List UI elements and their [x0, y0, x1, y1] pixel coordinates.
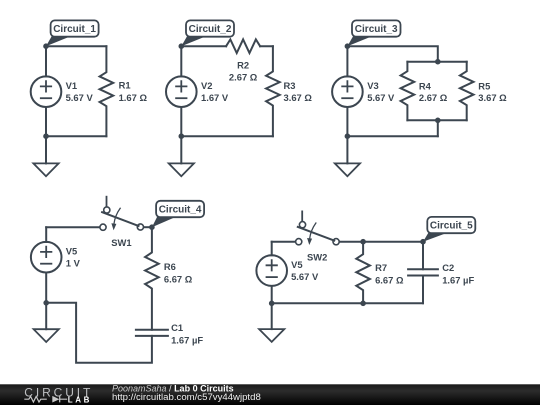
voltage source V2: [166, 76, 197, 107]
node D5a: [360, 239, 366, 245]
svg-text:R5: R5: [478, 80, 490, 91]
svg-text:Circuit_1: Circuit_1: [53, 24, 96, 35]
wire circuit2 bottom: [181, 135, 273, 137]
node B1: [43, 133, 49, 139]
svg-text:Circuit_4: Circuit_4: [159, 205, 202, 216]
label Circuit_1: [46, 20, 99, 46]
resistor R7: [356, 242, 370, 304]
svg-text:Circuit_2: Circuit_2: [189, 24, 232, 35]
node B4: [43, 300, 49, 306]
svg-text:SW1: SW1: [111, 237, 131, 248]
label Circuit_4: [152, 201, 204, 227]
wire circuit5 switch to nodes: [339, 241, 423, 243]
resistor R1: [100, 46, 114, 136]
ground circuit3: [335, 163, 360, 176]
voltage source V3: [332, 76, 363, 107]
svg-text:1.67 Ω: 1.67 Ω: [119, 92, 148, 103]
svg-text:SW2: SW2: [307, 252, 327, 263]
svg-text:Circuit_5: Circuit_5: [430, 221, 473, 232]
node B3: [345, 133, 351, 139]
wire circuit4 top: [46, 226, 100, 228]
wire circuit5 left: [271, 242, 273, 304]
wire circuit5 top: [272, 241, 296, 243]
resistor R4: [401, 62, 415, 121]
wire circuit3 top rail: [407, 61, 466, 63]
svg-text:V5: V5: [291, 259, 302, 270]
svg-text:5.67 V: 5.67 V: [66, 92, 94, 103]
node A3: [345, 43, 351, 49]
node C3bot: [435, 118, 441, 124]
svg-text:LAB: LAB: [68, 396, 92, 405]
node C3top: [435, 59, 441, 65]
logo squiggle: [24, 396, 67, 402]
ground circuit5: [259, 329, 284, 342]
svg-text:C1: C1: [171, 322, 183, 333]
svg-text:3.67 Ω: 3.67 Ω: [478, 92, 507, 103]
wire circuit1 top: [46, 45, 106, 47]
voltage source V5b: [256, 255, 287, 286]
svg-text:6.67 Ω: 6.67 Ω: [375, 275, 404, 286]
wire circuit3 ground lead: [346, 136, 348, 163]
wire circuit1 ground lead: [45, 136, 47, 163]
label Circuit_3: [347, 20, 400, 46]
node D4: [149, 224, 155, 230]
svg-text:R3: R3: [284, 80, 296, 91]
ground circuit2: [169, 163, 194, 176]
svg-text:Circuit_3: Circuit_3: [355, 24, 398, 35]
svg-text:C2: C2: [442, 262, 454, 273]
svg-text:R1: R1: [119, 80, 131, 91]
ground circuit4: [34, 329, 59, 342]
svg-text:R7: R7: [375, 262, 387, 273]
node B5b: [360, 301, 366, 307]
ground circuit1: [33, 163, 58, 176]
resistor R6: [145, 227, 159, 330]
voltage source V1: [31, 76, 62, 107]
svg-text:V1: V1: [66, 80, 77, 91]
svg-text:1.67 V: 1.67 V: [201, 92, 229, 103]
capacitor C2: [408, 269, 438, 275]
svg-text:http://circuitlab.com/c57vy44w: http://circuitlab.com/c57vy44wjptd8: [112, 392, 261, 403]
svg-text:V2: V2: [201, 80, 212, 91]
wire circuit4 bottom route: [46, 303, 152, 363]
svg-text:2.67 Ω: 2.67 Ω: [229, 71, 258, 82]
wire circuit2 top: [181, 45, 273, 47]
wire circuit5 bottom: [272, 302, 423, 304]
svg-text:6.67 Ω: 6.67 Ω: [164, 274, 193, 285]
node B2: [179, 133, 185, 139]
svg-text:5.67 V: 5.67 V: [291, 271, 319, 282]
svg-text:1.67 µF: 1.67 µF: [171, 335, 203, 346]
wire circuit3 mid lead: [437, 120, 439, 136]
wire circuit4 left: [45, 227, 47, 303]
svg-text:R4: R4: [419, 80, 432, 91]
wire circuit2 left: [180, 46, 182, 136]
wire circuit3 top: [347, 46, 437, 62]
label Circuit_2: [181, 20, 234, 46]
wire circuit2 ground lead: [180, 136, 182, 163]
voltage source V5a: [31, 242, 62, 273]
resistor R3: [266, 46, 280, 136]
wire circuit1 left: [45, 46, 47, 136]
wire circuit3 left: [346, 46, 348, 136]
svg-text:3.67 Ω: 3.67 Ω: [284, 92, 313, 103]
svg-text:R6: R6: [164, 261, 176, 272]
wire circuit4 switch to node: [144, 226, 152, 228]
switch SW2: [296, 211, 340, 245]
svg-text:1 V: 1 V: [66, 258, 81, 269]
resistor R2: [226, 39, 260, 53]
wire circuit5 ground lead: [271, 303, 273, 329]
svg-text:V5: V5: [66, 246, 77, 257]
svg-text:V3: V3: [367, 80, 378, 91]
capacitor C1: [136, 330, 168, 336]
wire circuit3 bottom rail: [407, 119, 466, 121]
wire circuit1 bottom: [46, 135, 106, 137]
svg-text:2.67 Ω: 2.67 Ω: [419, 92, 448, 103]
label Circuit_5: [423, 217, 475, 242]
node B5a: [269, 301, 275, 307]
wire circuit5 C2 leads: [422, 242, 424, 304]
node A2: [179, 43, 185, 49]
resistor R5: [460, 62, 474, 121]
wire circuit4 ground lead: [45, 303, 47, 329]
svg-text:R2: R2: [237, 60, 249, 71]
svg-text:5.67 V: 5.67 V: [367, 92, 395, 103]
svg-text:1.67 µF: 1.67 µF: [442, 275, 474, 286]
switch SW1: [100, 197, 144, 231]
wire circuit3 bottom: [347, 135, 437, 137]
node D5b: [420, 239, 426, 245]
node A1: [43, 43, 49, 49]
